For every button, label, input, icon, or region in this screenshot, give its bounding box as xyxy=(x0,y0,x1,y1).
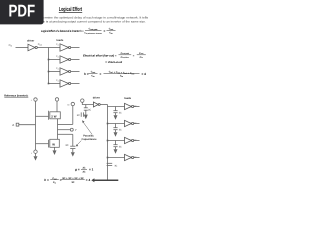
load inverter xyxy=(60,80,71,87)
wire output xyxy=(134,106,140,108)
wire output xyxy=(134,123,140,125)
capacitor 3C to ground xyxy=(113,128,117,133)
svg-text:Capacitance: Capacitance xyxy=(82,138,98,141)
load row 4 xyxy=(48,79,80,87)
svg-text:=: = xyxy=(100,72,102,76)
wire branch xyxy=(49,83,61,85)
svg-text:3C + 3C + 3C + 3C: 3C + 3C + 3C + 3C xyxy=(62,177,84,180)
junction xyxy=(107,157,109,159)
svg-text:3C: 3C xyxy=(119,129,122,132)
svg-text:3C: 3C xyxy=(88,108,91,111)
wire output xyxy=(134,157,140,159)
svg-text:h =: h = xyxy=(44,178,49,182)
driver inverter U1 xyxy=(28,44,37,51)
svg-text:3C: 3C xyxy=(114,164,117,167)
row 2 xyxy=(107,120,140,136)
svg-text:1: 1 xyxy=(31,152,32,155)
arrow to upper cap xyxy=(83,122,92,135)
wire to node Y xyxy=(58,129,71,131)
bottom terminal with arrow xyxy=(34,150,37,156)
svg-text:= 1: = 1 xyxy=(89,167,94,171)
svg-text:Cin: Cin xyxy=(140,56,143,59)
svg-text:Cin: Cin xyxy=(91,75,94,79)
svg-text:Cin,driver: Cin,driver xyxy=(121,56,130,59)
wire branch xyxy=(49,47,61,49)
junction xyxy=(107,123,109,125)
wire output xyxy=(71,83,80,85)
load row 1 xyxy=(49,43,80,51)
formula: g = 1 xyxy=(74,166,94,173)
wire output xyxy=(71,59,80,61)
output rail xyxy=(72,106,74,125)
svg-text:A: A xyxy=(12,123,14,127)
svg-text:PDF: PDF xyxy=(9,1,36,20)
junction xyxy=(48,59,50,61)
svg-text:Cin: Cin xyxy=(109,32,112,36)
svg-text:= 4: = 4 xyxy=(142,72,147,76)
svg-text:driver: driver xyxy=(27,40,34,43)
svg-text:Y: Y xyxy=(75,129,77,132)
svg-text:3C: 3C xyxy=(77,114,80,117)
load inverter xyxy=(125,154,134,160)
wire pmos drain to output rail xyxy=(58,123,73,125)
capacitor 3C to ground xyxy=(113,111,117,116)
svg-text:3C: 3C xyxy=(134,139,137,142)
parasitic cap C1 floating xyxy=(81,112,83,116)
junction xyxy=(48,83,50,85)
formula: h = 4 bottom xyxy=(44,177,90,185)
terminal top gate rail xyxy=(34,98,37,101)
svg-text:g =: g = xyxy=(74,167,80,171)
wire output xyxy=(71,47,80,49)
row 1 xyxy=(108,103,140,119)
wire output xyxy=(134,140,140,142)
svg-text:= Fan-out: = Fan-out xyxy=(105,61,122,64)
wire branch xyxy=(49,59,61,61)
svg-text:Cin: Cin xyxy=(9,44,12,47)
svg-text:3C: 3C xyxy=(134,105,137,108)
ground xyxy=(114,149,118,153)
load inverter xyxy=(125,120,134,126)
row 3 xyxy=(107,137,140,153)
svg-text:loads: loads xyxy=(124,97,131,100)
svg-text:driver: driver xyxy=(93,97,100,100)
svg-text:3C: 3C xyxy=(65,144,68,147)
load inverter xyxy=(125,103,134,109)
bus vertical xyxy=(48,48,50,84)
svg-text:Reference (inverter):: Reference (inverter): xyxy=(4,93,28,97)
wire driver output xyxy=(37,47,48,49)
capacitor C2 parasitic 3C xyxy=(70,146,75,152)
row 4 xyxy=(107,154,140,167)
wire branch xyxy=(108,123,125,125)
formula: electrical effort xyxy=(83,52,146,64)
wire driver out xyxy=(100,104,107,106)
bus vertical xyxy=(107,105,109,181)
node Y xyxy=(70,128,73,131)
ground arrow cap xyxy=(71,152,75,156)
svg-text:3C: 3C xyxy=(134,156,137,159)
formula: logical effort definition xyxy=(41,28,116,35)
ground xyxy=(114,132,118,136)
svg-text:= 4: = 4 xyxy=(86,178,91,182)
ground xyxy=(114,115,118,119)
svg-text:3C: 3C xyxy=(72,181,75,184)
load inverter xyxy=(60,68,71,75)
wire input to driver xyxy=(16,47,29,49)
input terminal xyxy=(81,99,84,102)
driver inverter U2 xyxy=(93,102,100,107)
vdd terminal pmos xyxy=(55,98,58,101)
svg-text:3C: 3C xyxy=(119,112,122,115)
load inverter xyxy=(60,44,71,51)
ground arrow nmos source xyxy=(53,150,57,155)
load inverter xyxy=(125,137,134,143)
node A input xyxy=(12,123,35,127)
pdf badge xyxy=(0,0,44,24)
wire cap stub xyxy=(115,124,117,128)
wire bus bottom with arrow xyxy=(94,179,118,181)
svg-text:1: 1 xyxy=(31,99,32,102)
load row 3 xyxy=(48,67,80,75)
svg-text:Cin: Cin xyxy=(120,75,123,79)
wire branch xyxy=(108,140,125,142)
load row 2 xyxy=(48,55,80,63)
wire branch xyxy=(108,157,125,159)
capacitor 3C to ground xyxy=(113,145,117,150)
junction xyxy=(107,140,109,142)
svg-text:3C: 3C xyxy=(82,166,85,169)
paragraph xyxy=(6,16,149,24)
transistor M1 pmos 2W xyxy=(36,101,61,139)
load inverter xyxy=(60,56,71,63)
capacitor input 3C xyxy=(84,105,88,115)
wire cap stub xyxy=(115,141,117,145)
wire cap stub xyxy=(115,107,117,111)
svg-text:3C: 3C xyxy=(119,146,122,149)
svg-text:loads: loads xyxy=(57,39,64,42)
svg-text:Cout: Cout xyxy=(38,43,43,46)
transistor M2 nmos W xyxy=(36,139,60,150)
label parasitic capacitance xyxy=(82,134,98,141)
svg-text:2 W: 2 W xyxy=(51,114,56,118)
svg-text:Cin: Cin xyxy=(53,181,56,185)
wire branch xyxy=(108,106,125,108)
svg-text:3C: 3C xyxy=(82,170,85,173)
svg-text:h =: h = xyxy=(84,72,89,76)
output rail terminal xyxy=(71,102,74,105)
wire input xyxy=(82,102,93,104)
arrow to lower cap xyxy=(77,141,82,146)
svg-text:Logical Effort of a fanout-of-: Logical Effort of a fanout-of-4 inverter… xyxy=(41,29,84,33)
title xyxy=(59,6,82,13)
svg-text:Electrical effort (fan-out) =: Electrical effort (fan-out) = xyxy=(83,54,117,57)
svg-text:=: = xyxy=(104,29,106,33)
wire branch xyxy=(49,71,61,73)
wire output xyxy=(71,71,80,73)
formula: h = 4 xyxy=(84,71,146,79)
junction xyxy=(48,71,50,73)
svg-text:W: W xyxy=(52,142,55,146)
svg-text:3C: 3C xyxy=(134,122,137,125)
wire nmos drain xyxy=(58,133,73,135)
label Reference (inverter): xyxy=(4,93,28,97)
gate rail wire xyxy=(35,101,37,150)
